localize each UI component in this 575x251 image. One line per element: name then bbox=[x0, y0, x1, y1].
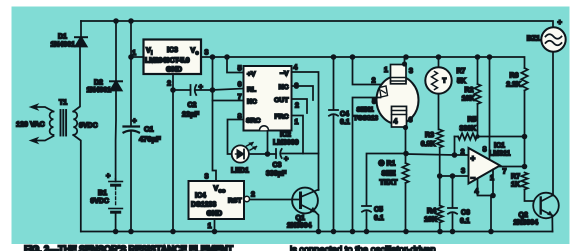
label Q1 bbox=[296, 215, 305, 222]
label IC2 pin8 bbox=[238, 114, 242, 121]
label IC2 pin3 bbox=[295, 83, 299, 90]
label R1 SEE bbox=[382, 171, 396, 178]
transistor Q2 2N3904 bbox=[533, 193, 559, 219]
junction R3-R4 / pin3 row bbox=[437, 173, 443, 179]
svg-text:Q2: Q2 bbox=[519, 212, 528, 219]
svg-text:3: 3 bbox=[205, 174, 209, 181]
svg-text:Q1: Q1 bbox=[296, 215, 305, 222]
label LM311 pin3 bbox=[461, 168, 465, 175]
junction ground rail / sensor pin5 bbox=[350, 229, 356, 235]
label IC2 -V bbox=[280, 71, 289, 78]
label IC4 Vcc bbox=[214, 186, 226, 194]
svg-text:D2: D2 bbox=[94, 80, 103, 87]
svg-text:R3: R3 bbox=[425, 132, 434, 139]
label IC2 pin7 bbox=[238, 94, 242, 101]
junction ground rail / R4 bbox=[437, 229, 443, 235]
label IC2 pin6 bbox=[238, 82, 242, 89]
battery B1 bbox=[109, 179, 123, 232]
label LM311 pin2 bbox=[461, 149, 465, 156]
svg-text:GND: GND bbox=[207, 211, 223, 218]
inverting bubble on IC4 RST output bbox=[244, 196, 249, 201]
label R5 bbox=[468, 117, 477, 124]
label IC2 bbox=[280, 132, 291, 139]
wire ground rail along bottom bbox=[81, 231, 553, 233]
label IC4 pin3 bbox=[205, 174, 209, 181]
voltage regulator IC3 LM2940CT-5.0 bbox=[144, 40, 202, 75]
junction ground rail / IC4 pin1 bbox=[212, 229, 218, 235]
wire LM311 pin1 stub bbox=[492, 170, 494, 196]
label C5 value bbox=[374, 215, 384, 222]
svg-text:8: 8 bbox=[483, 147, 487, 154]
svg-text:3: 3 bbox=[409, 68, 413, 75]
svg-text:TEXT: TEXT bbox=[380, 180, 399, 187]
label R2 10K bbox=[462, 96, 475, 103]
label IC2 NC left bbox=[247, 99, 257, 106]
junction LED1 / IC2 stub / C3 bbox=[265, 151, 271, 157]
junction ground rail / LM311 pin1/4 bbox=[488, 229, 494, 235]
wire IC3 pin2 ground stub bbox=[172, 74, 174, 232]
junction sensor output node bbox=[403, 151, 409, 157]
label C2 bbox=[188, 102, 197, 109]
junction ground rail / C1 bbox=[128, 229, 134, 235]
resistor R5 330K bbox=[455, 133, 525, 155]
svg-text:6: 6 bbox=[409, 117, 413, 124]
capacitor C5 bbox=[362, 206, 371, 232]
svg-text:1: 1 bbox=[384, 67, 388, 74]
label R7 5K bbox=[457, 78, 466, 85]
junction +5V rail / sensor heater pin2 bbox=[350, 54, 356, 60]
svg-text:120 VAC: 120 VAC bbox=[16, 120, 45, 129]
label SEN1 TGS813 bbox=[354, 115, 379, 122]
capacitor C1 bbox=[124, 21, 140, 232]
label sensor pin2 bbox=[372, 78, 376, 85]
junction ground rail / IC3 gnd bbox=[170, 229, 176, 235]
LED LED1 bbox=[232, 142, 257, 162]
svg-text:LM2940CT-5.0: LM2940CT-5.0 bbox=[145, 56, 190, 65]
junction ground rail / B1 bbox=[113, 229, 119, 235]
svg-text:FIG. 2—THE SENSOR’S RESISTANCE: FIG. 2—THE SENSOR’S RESISTANCE ELEMENT bbox=[24, 245, 233, 251]
junction +5V rail / sensor pin3 bbox=[403, 54, 409, 60]
junction R6 / R5 node bbox=[522, 134, 528, 140]
svg-text:1: 1 bbox=[132, 50, 136, 57]
label IC3 GND bbox=[166, 65, 182, 74]
label C4 value bbox=[340, 119, 350, 126]
label C4 bbox=[340, 111, 349, 118]
svg-text:IC3: IC3 bbox=[167, 47, 178, 54]
resistor R3 bbox=[437, 130, 443, 177]
svg-text:1K: 1K bbox=[511, 182, 520, 189]
svg-text:1: 1 bbox=[295, 119, 299, 126]
label R3 bbox=[425, 132, 434, 139]
label IC3 pin2 bbox=[167, 81, 171, 88]
svg-text:+: + bbox=[558, 18, 563, 27]
svg-text:5: 5 bbox=[372, 99, 376, 106]
diode D2 bbox=[110, 21, 122, 179]
svg-text:2: 2 bbox=[461, 149, 465, 156]
oscillator IC2 LM3909 body bbox=[244, 66, 292, 131]
junction +5V feed / C2 bbox=[210, 87, 216, 93]
wire sensor heater pin5 to ground bbox=[353, 98, 381, 232]
svg-text:C1: C1 bbox=[144, 125, 154, 134]
wire sensor heater pin2 to +5V rail bbox=[353, 57, 381, 85]
label IC2 +V bbox=[247, 71, 256, 78]
reset IC4 DS1233 body bbox=[189, 181, 245, 219]
label D1 bbox=[58, 34, 67, 41]
svg-text:C3: C3 bbox=[273, 162, 282, 169]
svg-text:2: 2 bbox=[295, 103, 299, 110]
label R6 bbox=[510, 73, 519, 80]
svg-text:R7: R7 bbox=[457, 68, 466, 75]
label R3 6.8K bbox=[421, 141, 436, 148]
junction +5V rail / thermistor bbox=[436, 54, 442, 60]
resistor R4 bbox=[437, 176, 443, 232]
label R1 TEXT bbox=[380, 180, 399, 187]
wire sensor pin6 down to R1 bbox=[403, 125, 408, 163]
svg-text:+: + bbox=[471, 154, 476, 163]
wire IC2 pin3 stub bbox=[292, 86, 314, 100]
label C6 value bbox=[460, 218, 470, 225]
svg-text:SRC: SRC bbox=[246, 118, 260, 125]
label IC3 Vo bbox=[191, 48, 199, 57]
wire LM311 ground bbox=[490, 196, 492, 232]
svg-text:−V: −V bbox=[280, 71, 289, 78]
svg-text:470μF: 470μF bbox=[139, 135, 161, 144]
label IC2 RL bbox=[247, 87, 256, 94]
wire 120VAC upper lead with arrow bbox=[30, 104, 54, 112]
label R1 bbox=[387, 161, 396, 168]
junction ground rail / R1 bbox=[403, 229, 409, 235]
wire +5V rail from IC3 pin3 to R6 bbox=[201, 57, 525, 68]
svg-text:o: o bbox=[196, 51, 199, 57]
wire top +9V rail from D1 cathode to BZ1 bbox=[81, 21, 553, 28]
svg-text:✱: ✱ bbox=[379, 160, 385, 168]
svg-text:22μF: 22μF bbox=[182, 110, 200, 119]
svg-text:7: 7 bbox=[503, 169, 507, 176]
label IC2 SRC bbox=[246, 118, 260, 125]
label LM311 minus input bbox=[471, 174, 476, 183]
label IC3 bbox=[167, 47, 178, 54]
label sensor pin1 bbox=[384, 67, 388, 74]
label 120 VAC bbox=[16, 120, 45, 129]
svg-text:−: − bbox=[471, 174, 476, 183]
label C3 plus bbox=[284, 154, 289, 163]
label Q1 2N3904 bbox=[287, 223, 312, 230]
label R1 star bbox=[379, 160, 385, 168]
label LM311 pin4 bbox=[475, 189, 479, 196]
label sensor pin4 bbox=[394, 119, 398, 126]
svg-text:TGS813: TGS813 bbox=[354, 115, 379, 122]
svg-text:2: 2 bbox=[251, 192, 255, 199]
svg-text:4: 4 bbox=[294, 65, 298, 72]
label C2 plus bbox=[199, 82, 204, 91]
wire secondary top to D1 anode bbox=[73, 47, 80, 112]
label BZ1 bbox=[527, 36, 540, 43]
label C3 bbox=[273, 162, 282, 169]
svg-text:10K: 10K bbox=[424, 217, 437, 224]
svg-text:IC1: IC1 bbox=[494, 143, 505, 150]
resistor R7 1K bbox=[521, 173, 533, 202]
capacitor C2 bbox=[173, 85, 213, 95]
wire Q2 collector to BZ1 bbox=[552, 52, 554, 196]
svg-text:6.8K: 6.8K bbox=[421, 141, 436, 148]
label T1 bbox=[59, 100, 67, 107]
label C5 bbox=[374, 207, 383, 214]
junction ground rail / Q1 emitter bbox=[316, 229, 322, 235]
svg-text:NC: NC bbox=[247, 99, 257, 106]
label IC2 pin4 bbox=[294, 65, 298, 72]
gas sensor SEN1 TGS813 bbox=[377, 65, 419, 128]
svg-text:+: + bbox=[284, 154, 289, 163]
label C3 value bbox=[266, 171, 287, 178]
wire LED1 cathode to C3 bbox=[249, 153, 276, 155]
label D2 1N4001 bbox=[87, 87, 112, 94]
label IC4 pin1 bbox=[208, 223, 212, 230]
svg-text:2N3904: 2N3904 bbox=[514, 220, 539, 227]
label IC3 pin1 bbox=[132, 50, 136, 57]
junction +5V rail / LM311 pin8 feed bbox=[487, 54, 493, 60]
svg-text:is connected to the oscillator: is connected to the oscillator-driven bbox=[290, 245, 436, 251]
wire +5V feed down to IC4 Vcc bbox=[213, 57, 217, 181]
wire secondary bottom to ground rail bbox=[73, 135, 81, 232]
op-amp IC1 LM311 bbox=[469, 148, 501, 184]
wire noninverting input row bbox=[406, 154, 469, 155]
label 9VDC secondary bbox=[79, 123, 98, 130]
label LM311 pin1 bbox=[490, 175, 494, 182]
wire stub from LED junction up to IC2 bbox=[267, 131, 269, 154]
svg-text:2.2K: 2.2K bbox=[506, 82, 521, 89]
wire IC2 pin8 to LED1 bbox=[228, 120, 244, 155]
wire IC3 pin1 to C1 node bbox=[131, 56, 144, 58]
svg-text:C6: C6 bbox=[461, 210, 470, 217]
resistor R6 2.2K bbox=[521, 68, 527, 167]
svg-text:RST: RST bbox=[228, 198, 242, 205]
label D2 bbox=[94, 80, 103, 87]
transistor Q1 2N3904 bbox=[292, 188, 318, 232]
label LED1 bbox=[231, 168, 249, 175]
label IC2 pin1 bbox=[295, 119, 299, 126]
label BZ1 plus bbox=[558, 18, 563, 27]
svg-text:+V: +V bbox=[247, 71, 256, 78]
wire IC2 pin5 to +5V rail bbox=[227, 57, 244, 73]
wire sensor pin3 to +5V rail bbox=[402, 57, 407, 67]
svg-text:R5: R5 bbox=[468, 117, 477, 124]
label Q2 bbox=[519, 212, 528, 219]
junction +5V rail / C4 bbox=[331, 54, 337, 60]
label Q2 2N3904 bbox=[514, 220, 539, 227]
svg-text:1: 1 bbox=[208, 223, 212, 230]
junction ground rail / C6 bbox=[450, 229, 456, 235]
label B1 9VDC bbox=[90, 198, 109, 205]
svg-text:+: + bbox=[106, 171, 111, 180]
wire LM311 pin8 supply bbox=[489, 57, 491, 159]
label IC1 LM311 bbox=[489, 151, 511, 158]
label IC2 NC right bbox=[279, 84, 289, 91]
svg-text:BZ1: BZ1 bbox=[527, 36, 540, 43]
junction R5 line / R2 bbox=[475, 134, 479, 138]
thermistor R7 5K bbox=[425, 57, 451, 130]
svg-text:SEN1: SEN1 bbox=[357, 107, 375, 114]
label R7 thermistor bbox=[457, 68, 466, 75]
wire IC2 pin6 to C2 node bbox=[213, 89, 244, 91]
caption FIG. 2 bbox=[24, 245, 436, 251]
svg-text:0.1: 0.1 bbox=[460, 218, 470, 225]
svg-text:3: 3 bbox=[461, 168, 465, 175]
wire LM311 output bbox=[500, 166, 525, 168]
svg-text:C2: C2 bbox=[188, 102, 197, 109]
label R4 bbox=[427, 208, 436, 215]
svg-text:R6: R6 bbox=[510, 73, 519, 80]
label C6 bbox=[461, 210, 470, 217]
label R7 bbox=[511, 174, 520, 181]
svg-text:IC4: IC4 bbox=[195, 193, 206, 200]
svg-text:1N4001: 1N4001 bbox=[51, 42, 76, 49]
svg-text:6: 6 bbox=[238, 82, 242, 89]
svg-text:10K: 10K bbox=[462, 96, 475, 103]
label C1 bbox=[144, 125, 154, 134]
wire IC2 pin2 stub bbox=[292, 99, 308, 113]
wire Q2 emitter to ground rail bbox=[551, 216, 553, 232]
svg-text:T1: T1 bbox=[59, 100, 67, 107]
label sensor pin5 bbox=[372, 99, 376, 106]
junction top rail / C1 column bbox=[128, 18, 134, 24]
svg-text:SEE: SEE bbox=[382, 171, 396, 178]
junction IC3 ground column / C2 branch bbox=[170, 87, 176, 93]
label IC2 pin2 bbox=[295, 103, 299, 110]
junction output node bbox=[522, 164, 528, 170]
wire 120VAC lower lead with arrow bbox=[30, 136, 54, 144]
svg-text:9VDC: 9VDC bbox=[90, 198, 109, 205]
svg-text:+: + bbox=[199, 82, 204, 91]
svg-text:C4: C4 bbox=[340, 111, 349, 118]
capacitor C4 bbox=[329, 57, 338, 232]
label sensor pin6 bbox=[409, 117, 413, 124]
svg-text:4: 4 bbox=[394, 119, 398, 126]
label IC2 FRC bbox=[275, 114, 289, 121]
label IC3 pin3 bbox=[205, 50, 209, 57]
svg-text:OUT: OUT bbox=[274, 97, 289, 104]
label LM311 pin7 bbox=[503, 169, 507, 176]
svg-text:R2: R2 bbox=[465, 87, 474, 94]
svg-text:NC: NC bbox=[279, 84, 289, 91]
label LM311 pin8 bbox=[483, 147, 487, 154]
capacitor C6 bbox=[448, 176, 457, 232]
svg-text:C5: C5 bbox=[374, 207, 383, 214]
svg-text:+: + bbox=[132, 116, 137, 125]
label IC2 OUT bbox=[274, 97, 289, 104]
junction C1 column / IC3 pin1 bbox=[128, 54, 134, 60]
wire sensor output to C5 bbox=[367, 154, 407, 206]
wire IC2 pin1 to C3 node bbox=[292, 116, 304, 154]
svg-text:IC2: IC2 bbox=[280, 132, 291, 139]
svg-text:330μF: 330μF bbox=[266, 171, 287, 178]
wire LM311 pin4 stub bbox=[478, 179, 494, 196]
svg-text:0.1: 0.1 bbox=[374, 215, 384, 222]
label IC3 Vi bbox=[146, 48, 153, 57]
label LM311 plus input bbox=[471, 154, 476, 163]
label IC4 RST bbox=[228, 198, 242, 205]
transformer T1 bbox=[50, 110, 78, 136]
label C1 plus bbox=[132, 116, 137, 125]
label C1 value bbox=[139, 135, 161, 144]
wire IC2 pin7 stub bbox=[213, 100, 244, 102]
svg-text:2N3904: 2N3904 bbox=[287, 223, 312, 230]
svg-text:LM3909: LM3909 bbox=[273, 140, 299, 147]
label B1 plus bbox=[106, 171, 111, 180]
svg-text:GND: GND bbox=[166, 65, 182, 74]
buzzer BZ1 bbox=[541, 27, 565, 51]
label IC2 pin5 bbox=[238, 66, 242, 73]
capacitor C3 bbox=[276, 149, 319, 158]
wire IC4 pin1 to ground bbox=[214, 219, 216, 232]
svg-text:CC: CC bbox=[219, 189, 226, 194]
label R7 1K bbox=[511, 182, 520, 189]
label B1 bbox=[98, 190, 107, 197]
junction R5 drop / pin2 row bbox=[452, 152, 458, 158]
svg-text:B1: B1 bbox=[98, 190, 107, 197]
label IC4 DS1233 bbox=[191, 202, 216, 209]
svg-text:0.1: 0.1 bbox=[340, 119, 350, 126]
label IC1 bbox=[494, 143, 505, 150]
junction ground rail / C5 bbox=[364, 229, 370, 235]
diode D1 bbox=[75, 21, 87, 47]
svg-text:330K: 330K bbox=[460, 126, 477, 133]
svg-text:T: T bbox=[443, 79, 447, 85]
resistor R1 bbox=[402, 163, 408, 232]
svg-text:2: 2 bbox=[167, 81, 171, 88]
svg-text:1N4001: 1N4001 bbox=[87, 87, 112, 94]
wire Q1 base from IC4 RST bbox=[250, 199, 301, 201]
label C2 value bbox=[182, 110, 200, 119]
label thermistor T bbox=[443, 79, 447, 85]
label R6 2.2K bbox=[506, 82, 521, 89]
svg-text:DS1233: DS1233 bbox=[191, 202, 216, 209]
junction +5V rail / IC3 output bbox=[210, 54, 216, 60]
junction +5V rail / R2 bbox=[475, 54, 481, 60]
svg-text:R4: R4 bbox=[427, 208, 436, 215]
svg-text:D1: D1 bbox=[58, 34, 67, 41]
junction ground rail / C4 bbox=[331, 229, 337, 235]
svg-text:2: 2 bbox=[372, 78, 376, 85]
junction +5V rail / IC2 pin5 bbox=[224, 54, 230, 60]
svg-text:FRC: FRC bbox=[275, 114, 289, 121]
label IC4 GND bbox=[207, 211, 223, 218]
label IC3 LM2940CT-5.0 bbox=[145, 56, 190, 65]
label R5 330K bbox=[460, 126, 477, 133]
svg-text:5: 5 bbox=[238, 66, 242, 73]
junction pin1/pin4 bbox=[490, 193, 496, 199]
svg-text:LM311: LM311 bbox=[489, 151, 511, 158]
svg-text:R1: R1 bbox=[387, 161, 396, 168]
resistor R2 bbox=[474, 57, 480, 137]
svg-text:3: 3 bbox=[205, 50, 209, 57]
svg-text:9VDC: 9VDC bbox=[79, 123, 98, 130]
label IC4 bbox=[195, 193, 206, 200]
svg-text:R7: R7 bbox=[511, 174, 520, 181]
label IC4 pin2 bbox=[251, 192, 255, 199]
label sensor pin3 bbox=[409, 68, 413, 75]
label SEN1 bbox=[357, 107, 375, 114]
label R4 10K bbox=[424, 217, 437, 224]
label R2 bbox=[465, 87, 474, 94]
svg-text:RL: RL bbox=[247, 87, 256, 94]
label D1 1N4001 bbox=[51, 42, 76, 49]
svg-text:5K: 5K bbox=[457, 78, 466, 85]
svg-text:LED1: LED1 bbox=[231, 168, 249, 175]
label IC2 LM3909 bbox=[273, 140, 299, 147]
wire IC2 pin4 down to Q1 collector bbox=[292, 72, 319, 190]
junction inverting input node / C6 bbox=[450, 173, 456, 179]
wire inverting input row bbox=[440, 175, 469, 177]
